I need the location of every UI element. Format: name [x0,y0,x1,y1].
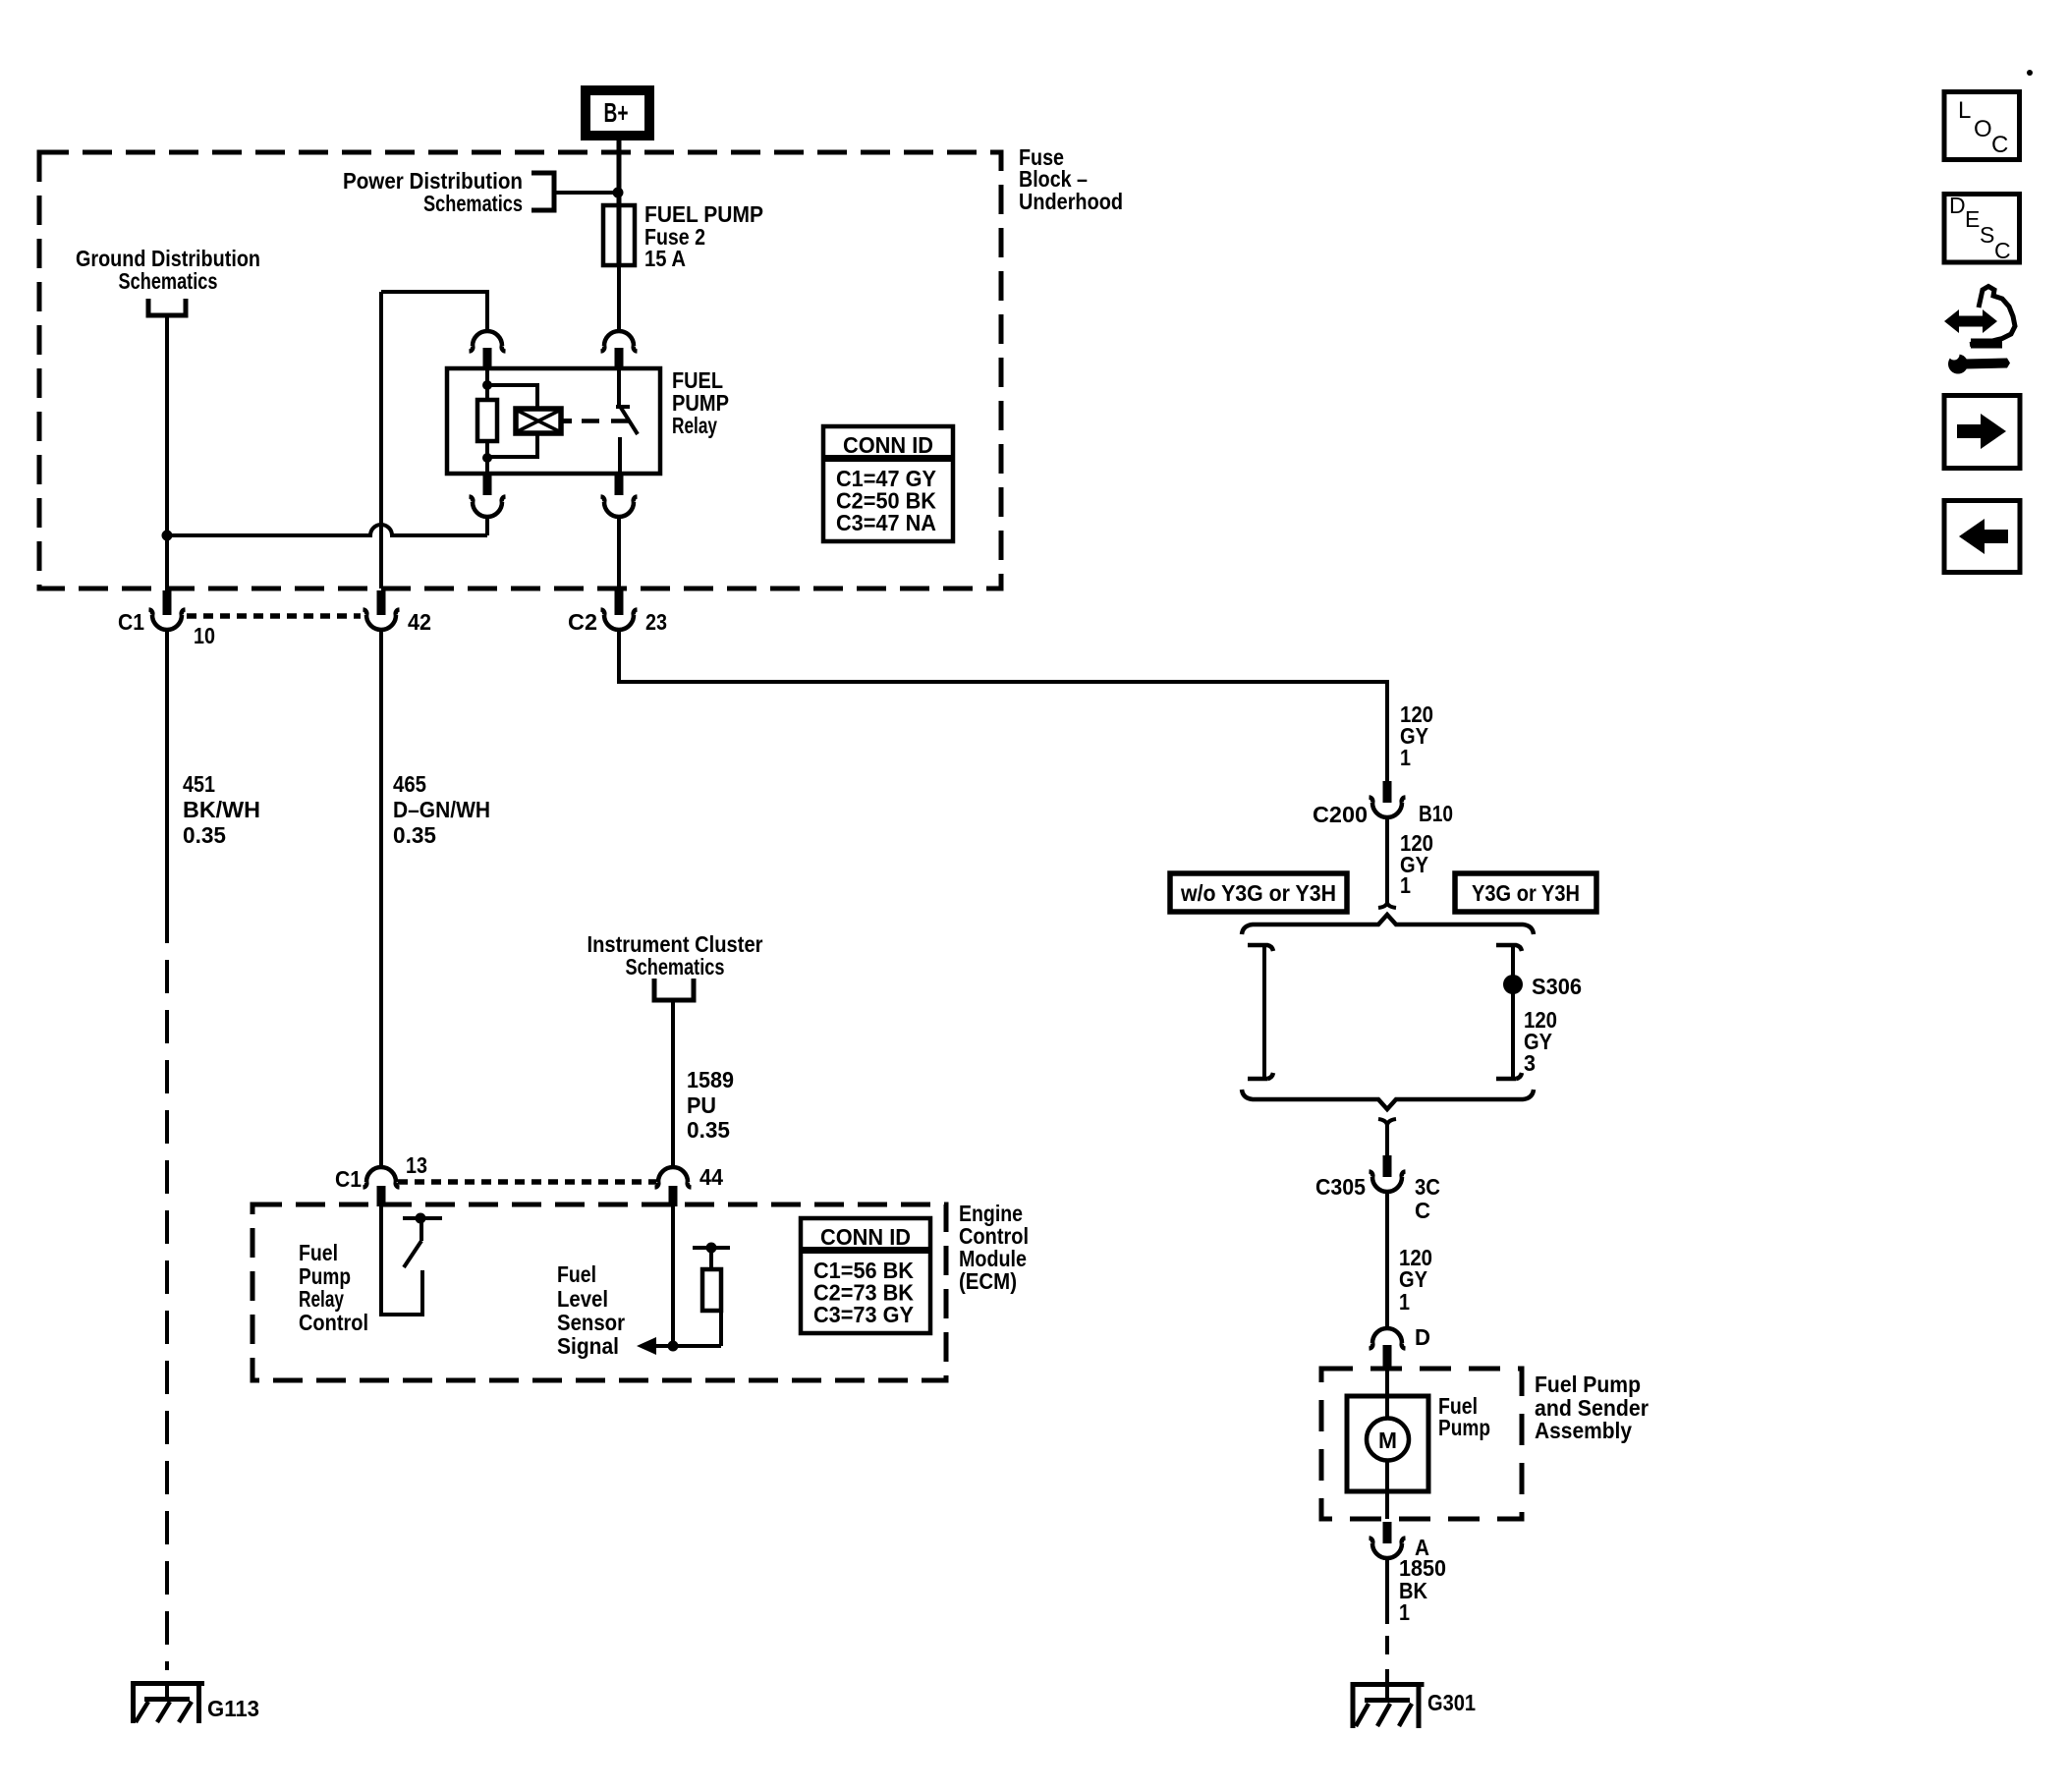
svg-text:Y3G or Y3H: Y3G or Y3H [1472,880,1580,906]
svg-text:O: O [1974,116,1992,142]
svg-text:1589: 1589 [687,1067,734,1092]
ground junction node [162,531,173,541]
connector C2 pin 23 [601,590,638,630]
svg-text:Fuel: Fuel [299,1240,338,1265]
svg-text:CONN ID: CONN ID [843,432,933,458]
svg-text:M: M [1378,1428,1397,1453]
label FUEL PUMP Relay [672,367,729,438]
svg-text:C2: C2 [568,609,597,635]
wire end hook at split [1378,889,1396,908]
connector A fuel pump assembly [1370,1522,1406,1558]
svg-text:G301: G301 [1427,1690,1476,1715]
svg-text:C: C [1991,132,2008,158]
relay coil top node [482,380,492,390]
sidebar forward arrow button [1944,396,2020,469]
svg-text:Schematics: Schematics [626,954,725,980]
fuse F2 FUEL PUMP 15 A [603,193,635,265]
wire 1589 PU [671,1000,675,1169]
svg-text:13: 13 [406,1152,427,1178]
svg-text:Schematics: Schematics [423,191,523,216]
wire 451 BK/WH dashed run [165,910,169,1670]
wire C305 to D [1385,1192,1389,1330]
connector C1 dotted span [187,613,361,619]
svg-text:465: 465 [393,771,426,797]
label 120 GY 1 (second) [1400,830,1433,898]
wire ground horizontal with hop over wire 465 [167,525,487,535]
label 120 GY 1 (first) [1400,701,1433,770]
ground G301 [1351,1682,1425,1728]
relay coil winding (crossed box) [487,385,572,457]
svg-text:Sensor: Sensor [557,1310,625,1335]
sidebar DESC button [1944,193,2020,263]
power symbol B+ [586,90,649,136]
connector relay pin 30 top (female cap over male pin) [601,331,638,368]
option box Y3G or Y3H [1455,873,1596,912]
relay K fuel pump relay box [447,368,660,474]
wire fuse to relay connector [617,265,621,332]
svg-text:G113: G113 [207,1696,259,1721]
svg-text:Assembly: Assembly [1535,1418,1632,1443]
svg-text:Pump: Pump [1438,1415,1490,1440]
svg-text:CONN ID: CONN ID [820,1224,911,1250]
sidebar component view icon (arrows, panel outline, wrench) [1944,287,2015,374]
CONN ID table fuse block [823,426,953,541]
connector pin 42 [363,590,400,630]
ground distribution schematics reference [76,246,260,315]
fuse block underhood dashed box [39,152,1001,588]
label Fuel Pump (inside assembly) [1438,1393,1490,1440]
svg-text:1: 1 [1400,745,1411,770]
svg-text:Schematics: Schematics [119,268,218,294]
svg-text:C200: C200 [1313,802,1368,827]
relay coil resistor [477,368,497,474]
connector C1 pin 10 [149,590,186,630]
label 1589 PU 0.35 [687,1067,734,1143]
label Fuel Pump and Sender Assembly [1535,1372,1649,1443]
connector relay pin 85 top [470,331,506,368]
relay switch [616,368,638,474]
sidebar back arrow button [1944,501,2020,573]
svg-text:0.35: 0.35 [687,1117,730,1143]
option box w/o Y3G or Y3H [1170,873,1347,912]
svg-text:Signal: Signal [557,1333,619,1359]
svg-text:0.35: 0.35 [393,822,436,848]
wire 465 D-GN/WH to ECM [379,630,383,1169]
svg-text:S: S [1980,222,1994,248]
svg-text:0.35: 0.35 [183,822,226,848]
power distribution schematics reference [343,168,617,216]
svg-text:PU: PU [687,1092,716,1118]
svg-text:Level: Level [557,1286,608,1312]
wire C200 to option split [1385,817,1389,905]
connector ECM C1 pin 13 [363,1167,400,1206]
svg-text:C: C [1415,1198,1430,1223]
svg-text:Underhood: Underhood [1019,189,1123,214]
svg-text:3: 3 [1524,1050,1536,1076]
wire merge hook down to C305 [1378,1119,1396,1155]
svg-text:Control: Control [299,1310,368,1335]
relay coil bottom node [482,453,492,463]
wire relay 86 down [485,517,489,535]
wire 1850 BK solid [1385,1558,1389,1624]
svg-text:E: E [1965,206,1980,232]
label Fuel Level Sensor Signal [557,1261,625,1359]
svg-text:C305: C305 [1315,1174,1366,1200]
connector ECM C1 dotted span [398,1179,656,1185]
ECM fuel level sensor input network [637,1206,730,1355]
svg-text:C3=47 NA: C3=47 NA [836,510,936,535]
branch Y3G vertical [1496,945,1522,1079]
svg-text:10: 10 [194,623,215,648]
connector C305 pin 3C [1370,1155,1406,1192]
svg-text:L: L [1958,97,1971,124]
connector ECM C1 pin 44 [655,1167,692,1206]
svg-text:23: 23 [645,609,667,635]
svg-text:C3=73 GY: C3=73 GY [813,1302,914,1327]
ground G113 [131,1681,204,1723]
instrument cluster schematics reference [587,931,763,1000]
option split brace top [1242,915,1534,934]
ECM dashed box [252,1204,946,1380]
motor M fuel pump [1347,1369,1428,1519]
CONN ID table ECM [801,1218,930,1333]
svg-text:B+: B+ [604,97,629,128]
svg-text:Fuel: Fuel [557,1261,596,1287]
svg-text:44: 44 [699,1164,723,1190]
relay actuation dashed link [582,419,629,423]
svg-text:D: D [1415,1324,1430,1350]
svg-text:w/o Y3G or Y3H: w/o Y3G or Y3H [1180,880,1336,906]
wire C2-23 to fuel pump feed run [619,630,1387,781]
svg-text:C1: C1 [118,609,144,635]
label FUEL PUMP Fuse 2 15 A [644,201,763,271]
connector relay pin 86 bottom [470,474,506,517]
svg-text:15 A: 15 A [644,246,686,271]
wire coil feed over to relay [381,292,487,332]
connector relay pin 87 bottom [601,474,638,517]
svg-text:BK/WH: BK/WH [183,797,260,822]
label 1850 BK 1 [1399,1555,1446,1625]
label 451 BK/WH 0.35 [183,771,260,848]
splice S306 [1503,975,1523,994]
branch w/o Y3G vertical [1248,945,1273,1079]
wire 1850 BK dashed run [1385,1636,1389,1684]
svg-text:Relay: Relay [672,413,717,438]
svg-text:D: D [1949,193,1966,218]
sidebar LOC button [1944,92,2020,160]
svg-text:42: 42 [408,609,431,635]
svg-text:Relay: Relay [299,1286,344,1312]
stray dot top right [2027,70,2033,76]
connector C200 pin B10 [1370,781,1406,817]
label Fuse Block - Underhood [1019,144,1123,214]
svg-text:Fuel Pump: Fuel Pump [1535,1372,1641,1397]
svg-text:1: 1 [1400,872,1411,898]
svg-text:451: 451 [183,771,215,797]
fuel pump and sender assembly dashed box [1321,1369,1522,1519]
svg-text:C1: C1 [335,1166,362,1192]
wire B+ to fuse block [617,140,622,205]
svg-text:B10: B10 [1419,801,1453,826]
wire 451 BK/WH upper solid [165,630,169,910]
svg-text:C: C [1994,238,2011,263]
label Engine Control Module (ECM) [959,1201,1029,1294]
connector D fuel pump assembly [1370,1328,1406,1369]
wire ground branch vertical [165,317,169,588]
option merge brace bottom [1242,1090,1534,1109]
ECM fuel pump relay control switch [379,1206,442,1315]
label 120 GY 1 (third) [1399,1245,1432,1315]
label Fuel Pump Relay Control [299,1240,368,1335]
wire 42 vertical inside fuse block [379,292,383,588]
junction node B+ feed [613,188,624,198]
svg-text:S306: S306 [1532,974,1582,999]
label 465 D-GN/WH 0.35 [393,771,490,848]
label 120 GY 3 [1524,1007,1557,1076]
wire relay 87 to C2-23 [617,517,621,588]
svg-text:1: 1 [1399,1289,1410,1315]
svg-text:1: 1 [1399,1599,1410,1625]
svg-text:D–GN/WH: D–GN/WH [393,797,490,822]
svg-text:3C: 3C [1415,1174,1440,1200]
svg-text:(ECM): (ECM) [959,1268,1017,1294]
